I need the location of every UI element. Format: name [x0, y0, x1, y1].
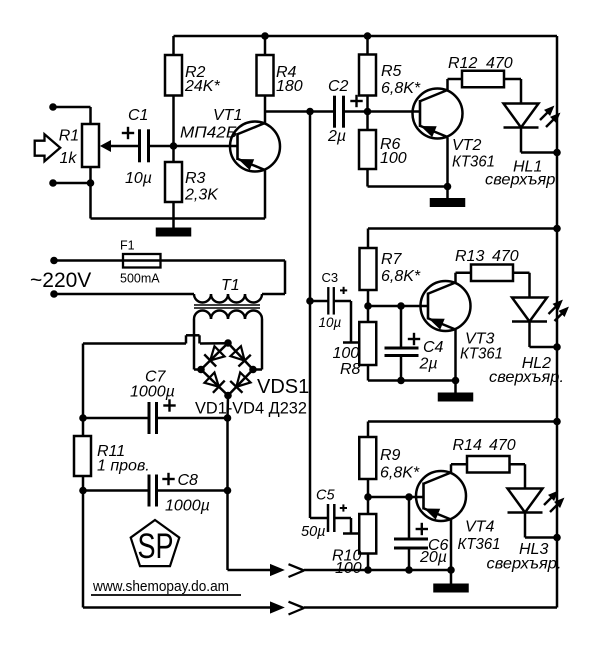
wire wiper to C1 [108, 145, 140, 148]
label R1 [59, 128, 79, 145]
svg-text:www.shemopay.do.am: www.shemopay.do.am [92, 579, 229, 595]
label сверхъяр. HL3 [487, 556, 562, 573]
capacitor C1 [140, 129, 149, 162]
resistor R14 [467, 456, 510, 473]
wire R4 to VT1 collector [264, 96, 267, 124]
node bridge left corner [197, 366, 205, 374]
label R2 [185, 64, 206, 81]
svg-text:VDS1: VDS1 [257, 376, 309, 398]
label 180 [276, 78, 303, 95]
output arrow upper [271, 564, 305, 577]
svg-text:КТ361: КТ361 [458, 536, 501, 553]
node audio line tap [306, 108, 314, 116]
label 2µ C4 [419, 356, 438, 373]
led HL3 [508, 489, 564, 513]
svg-text:VT4: VT4 [465, 519, 494, 536]
wire left column down [82, 344, 85, 608]
label HL3 [519, 541, 548, 558]
node bridge bottom corner [224, 392, 232, 400]
label 1000µ C8 [165, 498, 210, 515]
wire fuse down to primary [262, 261, 285, 295]
wire rail to R4 [264, 36, 267, 55]
wire base node to R6 [366, 112, 369, 131]
label HL2 [522, 355, 551, 372]
label C6 [428, 537, 449, 554]
wire VT4 emitter down [450, 520, 453, 571]
svg-text:C4: C4 [423, 339, 444, 356]
wire bridge top to left column [83, 335, 228, 343]
label КТ361 VT4 [458, 536, 501, 553]
wire R12 to HL1 [504, 79, 521, 104]
node input lower terminal [49, 179, 57, 187]
resistor R8 [359, 322, 376, 365]
polarity plus C3 [340, 287, 347, 294]
wire HL1 cathode to rail [521, 128, 557, 153]
svg-text:470: 470 [492, 248, 519, 265]
transformer T1 primary winding [194, 294, 262, 303]
transformer T1 core [194, 305, 260, 308]
diode VD2 [230, 346, 250, 366]
label R5 [381, 63, 402, 80]
wire C2 to VT2 base node [344, 110, 368, 113]
node C8 left junction [79, 487, 87, 495]
ground below VT2 [430, 187, 466, 208]
node stage2 base node [364, 302, 372, 310]
svg-text:470: 470 [489, 437, 516, 454]
svg-text:КТ361: КТ361 [460, 346, 503, 363]
wire base node to R3 [172, 146, 175, 162]
node HL3 rail junction [553, 534, 561, 542]
ground below VT3 [438, 381, 474, 402]
resistor R4 [257, 55, 274, 96]
resistor R5 [359, 55, 376, 96]
transistor VT1 [230, 122, 280, 172]
label R10 [332, 548, 361, 565]
transistor VT4 [416, 471, 466, 521]
svg-text:6,8K*: 6,8K* [381, 80, 421, 97]
node C4 bottom junction [397, 377, 405, 385]
svg-text:1000µ: 1000µ [165, 498, 210, 515]
capacitor C7 [149, 402, 157, 434]
wire bridge arm bottom-left [201, 370, 228, 396]
node rail R5 junction [364, 32, 372, 40]
polarity plus C6 [416, 523, 428, 535]
wire VT3 collector up [456, 273, 472, 283]
wire R8 to stage2 ground rail [368, 365, 456, 381]
wire bridge arm top-left [201, 343, 228, 370]
svg-text:24K*: 24K* [184, 78, 220, 95]
wire R2 to base node [172, 96, 175, 147]
label 1000µ C7 [130, 384, 175, 401]
wire secondary left down [194, 319, 201, 370]
label C2 [328, 78, 349, 95]
polarity plus C4 [408, 333, 420, 345]
label 2,3K [184, 187, 219, 204]
node VT2 emitter junction [444, 183, 452, 191]
wire R6 to emitter rail [368, 169, 448, 187]
node R1 bottom junction [87, 179, 95, 187]
label F1 [120, 239, 135, 253]
svg-text:VD1-VD4 Д232: VD1-VD4 Д232 [195, 400, 307, 418]
svg-text:сверхъяр.: сверхъяр. [489, 369, 564, 386]
label 50µ C5 [301, 524, 325, 540]
label R4 [276, 64, 297, 81]
node rail stage2 junction [553, 225, 561, 233]
svg-text:100: 100 [333, 345, 360, 362]
label 6,8K* R9 [380, 465, 420, 482]
label C3 [322, 270, 339, 285]
node mains upper terminal [50, 257, 58, 265]
svg-text:C8: C8 [178, 472, 199, 489]
label R13 [455, 248, 484, 265]
svg-text:C1: C1 [128, 107, 148, 124]
label C7 [145, 369, 167, 386]
capacitor C6 [394, 539, 428, 548]
wire stage3 supply [368, 422, 557, 438]
label R9 [380, 447, 401, 464]
wire mains lower to primary [54, 293, 194, 296]
label КТ361 VT3 [460, 346, 503, 363]
svg-text:2µ: 2µ [419, 356, 438, 373]
wire base node to VT3 [368, 305, 428, 308]
svg-text:2µ: 2µ [327, 128, 346, 145]
wire R9 to base node [367, 479, 370, 497]
wire base node to R8 [367, 306, 370, 322]
label HL1 [513, 159, 542, 176]
svg-text:1 пров.: 1 пров. [97, 458, 150, 475]
wire C6 bottom lead [408, 548, 411, 570]
svg-text:100: 100 [380, 150, 407, 167]
wire R14 to HL3 [510, 464, 526, 488]
svg-text:R13: R13 [455, 248, 484, 265]
wire right column down [228, 418, 271, 570]
svg-text:470: 470 [486, 55, 513, 72]
polarity plus C8 [162, 473, 174, 485]
wire base node to VT1 base [174, 145, 238, 148]
label VD1-VD4 Д232 [195, 400, 307, 418]
input signal block arrow [35, 134, 61, 161]
label R6 [380, 136, 401, 153]
wire C3 to R8 tap [334, 301, 359, 343]
transformer T1 secondary winding [194, 311, 262, 320]
wire bridge bottom to right column [226, 396, 229, 419]
svg-text:R12: R12 [448, 55, 477, 72]
label R14 [453, 437, 482, 454]
wire stage3 bottom rail [304, 569, 451, 572]
svg-text:R5: R5 [381, 63, 402, 80]
label 10µ C3 [319, 315, 342, 330]
wire HL3 cathode to rail [525, 513, 557, 538]
capacitor C5 [328, 504, 334, 532]
R1 wiper arrow [101, 141, 111, 151]
svg-text:10µ: 10µ [125, 170, 152, 187]
node C8 right junction [224, 487, 232, 495]
node C7 right junction [224, 414, 232, 422]
wire input upper to R1 top [53, 107, 91, 124]
label 470 R14 [489, 437, 516, 454]
diode VD3 [204, 372, 224, 392]
resistor R7 [360, 248, 377, 290]
polarity plus C1 [122, 127, 134, 139]
resistor R11 [74, 436, 91, 476]
node C6 top junction [405, 493, 413, 501]
label 20µ C6 [419, 549, 447, 566]
site url underline [91, 594, 241, 596]
capacitor C4 [385, 348, 419, 356]
wire audio vertical line [310, 112, 327, 519]
svg-text:сверхъяр.: сверхъяр. [485, 172, 560, 189]
wire C4 top lead [400, 306, 403, 348]
wire stage2 supply [368, 229, 557, 249]
diode VD1 [204, 346, 224, 366]
label 100 R6 [380, 150, 407, 167]
svg-text:МП42Б: МП42Б [180, 125, 237, 142]
label 100 R8 [333, 345, 360, 362]
label R11 [97, 443, 125, 460]
wire input lower [53, 182, 91, 185]
label 6,8K* R5 [381, 80, 421, 97]
svg-text:10µ: 10µ [319, 315, 342, 330]
svg-text:20µ: 20µ [419, 549, 447, 566]
wire VT1 emitter down [264, 170, 267, 219]
label R7 [381, 251, 403, 268]
wire rail to R2 [172, 36, 175, 55]
ground below VT4 [433, 570, 469, 593]
node VT3 emitter junction [452, 377, 460, 385]
svg-text:R3: R3 [185, 170, 206, 187]
node R10 rail junction [364, 566, 372, 574]
wire base node to R10 [367, 497, 370, 514]
label 24K* [184, 78, 220, 95]
label VT1 [213, 107, 242, 124]
ground below R3 [156, 219, 192, 237]
svg-text:1k: 1k [60, 150, 78, 167]
node stage3 base node [364, 493, 372, 501]
capacitor C2 [335, 96, 344, 128]
node C6 bottom junction [405, 566, 413, 574]
svg-text:6,8K*: 6,8K* [380, 465, 420, 482]
svg-text:F1: F1 [120, 239, 135, 253]
wire C6 top lead [408, 497, 411, 539]
site url text [92, 579, 229, 595]
wire VT2 collector up [448, 79, 463, 90]
capacitor C8 [149, 475, 157, 507]
label C8 [178, 472, 199, 489]
wire bridge arm top-right [228, 343, 253, 370]
transistor VT3 [421, 281, 471, 331]
svg-text:1000µ: 1000µ [130, 384, 175, 401]
svg-text:500mA: 500mA [120, 272, 160, 286]
label C4 [423, 339, 444, 356]
wire bridge arm bottom-right [228, 370, 253, 396]
wire R5 to base node [366, 96, 369, 112]
label VDS1 [257, 376, 309, 398]
label VT2 [452, 137, 481, 154]
resistor R2 [165, 55, 182, 96]
node rail stage3 junction [553, 418, 561, 426]
wire right supply rail [556, 36, 559, 608]
label ~220V [30, 269, 91, 292]
wire R7 to base node [367, 290, 370, 306]
node audio line C3 tap [306, 297, 314, 305]
polarity plus C7 [163, 399, 175, 411]
wire R10 to stage3 ground rail [367, 554, 370, 571]
svg-text:~220V: ~220V [30, 269, 91, 292]
label R8 [340, 361, 361, 378]
wire VT4 collector up [451, 464, 467, 472]
svg-text:R9: R9 [380, 447, 401, 464]
node VT4 emitter junction [447, 566, 455, 574]
led HL1 [504, 104, 560, 128]
resistor R3 [165, 162, 182, 202]
wire R13 to HL2 [513, 273, 530, 298]
label VT4 [465, 519, 494, 536]
svg-text:сверхъяр.: сверхъяр. [487, 556, 562, 573]
resistor R10 [359, 514, 376, 554]
label VT3 [465, 330, 494, 347]
wire R3 to ground rail [172, 202, 175, 219]
polarity plus C2 [350, 95, 362, 107]
transistor VT2 [413, 89, 463, 139]
wire base node to VT4 [368, 496, 424, 499]
capacitor C3 [328, 287, 334, 315]
wire C3 left lead [310, 300, 328, 303]
svg-text:R8: R8 [340, 361, 361, 378]
svg-text:6,8K*: 6,8K* [381, 268, 421, 285]
label 6,8K* R7 [381, 268, 421, 285]
label 10µ C1 [125, 170, 152, 187]
node C7 left junction [79, 414, 87, 422]
svg-text:C2: C2 [328, 78, 349, 95]
label T1 [221, 277, 240, 294]
wire HL2 cathode to rail [530, 322, 558, 348]
label 470 R12 [486, 55, 513, 72]
label R3 [185, 170, 206, 187]
wire C7 leads [83, 417, 228, 420]
svg-text:100: 100 [335, 560, 362, 577]
wire mains upper to fuse [54, 259, 285, 262]
svg-text:КТ361: КТ361 [452, 154, 495, 171]
label 2µ C2 [327, 128, 346, 145]
label 100 R10 [335, 560, 362, 577]
wire VT2 emitter down [446, 138, 449, 187]
wire secondary right down [253, 319, 262, 370]
label R12 [448, 55, 477, 72]
svg-text:180: 180 [276, 78, 303, 95]
svg-text:2,3K: 2,3K [184, 187, 219, 204]
SP logo pentagon [131, 520, 180, 566]
label сверхъяр. HL1 [485, 172, 560, 189]
label 500mA [120, 272, 160, 286]
label 1k [60, 150, 78, 167]
wire collector line left [265, 110, 335, 113]
wire base node to VT2 [368, 110, 421, 113]
resistor R6 [359, 130, 376, 169]
potentiometer R1 [82, 124, 99, 167]
node mains lower terminal [50, 290, 58, 298]
resistor R9 [359, 437, 376, 479]
label 470 R13 [492, 248, 519, 265]
node bridge top corner [224, 339, 232, 347]
svg-text:C3: C3 [322, 270, 339, 285]
label сверхъяр. HL2 [489, 369, 564, 386]
resistor R12 [462, 71, 504, 88]
svg-text:R7: R7 [381, 251, 403, 268]
wire C5 to R10 tap [334, 518, 359, 534]
node input upper terminal [49, 103, 57, 111]
svg-text:VT1: VT1 [213, 107, 242, 124]
diode VD4 [230, 372, 250, 392]
node HL1 rail junction [553, 149, 561, 157]
svg-text:T1: T1 [221, 277, 240, 294]
node rail R4 junction [261, 32, 269, 40]
led HL2 [512, 298, 568, 322]
node VT2 base node [364, 108, 372, 116]
node bridge right corner [249, 366, 257, 374]
polarity plus C5 [340, 504, 347, 511]
svg-text:50µ: 50µ [301, 524, 325, 540]
wire VT3 emitter down [454, 330, 457, 381]
svg-text:R1: R1 [59, 128, 79, 145]
resistor R13 [471, 265, 513, 282]
label C5 [316, 488, 335, 504]
label КТ361 VT2 [452, 154, 495, 171]
wire rail to R5 [366, 36, 369, 55]
node VT1 base node [170, 142, 178, 150]
label МП42Б [180, 125, 237, 142]
node C4 top junction [397, 302, 405, 310]
svg-text:VT2: VT2 [452, 137, 481, 154]
svg-text:SP: SP [138, 527, 174, 566]
wire C8 leads [83, 489, 228, 492]
svg-text:C5: C5 [316, 488, 335, 504]
fuse F1 [123, 254, 161, 268]
wire C4 bottom lead [400, 356, 403, 381]
SP logo text [138, 527, 174, 566]
wire C1 to base node [149, 145, 174, 148]
label 1 пров. [97, 458, 150, 475]
node HL2 rail junction [553, 343, 561, 351]
wire top supply rail [174, 35, 558, 38]
svg-text:R14: R14 [453, 437, 482, 454]
label C1 [128, 107, 148, 124]
wire R1 bottom to ground rail [91, 166, 266, 219]
output arrow lower [83, 602, 557, 615]
